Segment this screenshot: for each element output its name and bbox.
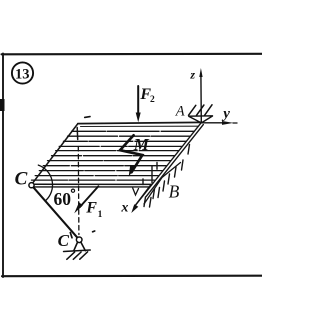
frame left border xyxy=(2,54,4,278)
dashed vertical line xyxy=(77,147,80,235)
frame bottom border xyxy=(2,275,262,278)
vertical mark near top-left corner xyxy=(76,128,79,140)
plate bottom edge lower line xyxy=(34,186,150,188)
plate right edge double line xyxy=(135,122,203,205)
support B v-mark xyxy=(133,188,139,195)
svg-text:13: 13 xyxy=(15,67,30,83)
svg-text:C: C xyxy=(58,231,70,250)
support C' ground line xyxy=(64,250,91,252)
force F2 arrow xyxy=(137,86,139,114)
svg-text:F: F xyxy=(85,200,97,217)
support A hatching xyxy=(189,105,213,116)
svg-text:M: M xyxy=(133,135,150,154)
support C' hatching xyxy=(67,252,88,259)
strut C to C' xyxy=(34,188,77,237)
support B hatching band xyxy=(144,145,190,208)
support B wall line xyxy=(144,163,181,205)
support C' pin circle xyxy=(76,237,82,243)
svg-text:y: y xyxy=(221,106,230,122)
svg-text:B: B xyxy=(169,182,180,202)
plate hatching lines xyxy=(32,131,195,180)
frame left border blob xyxy=(0,99,5,111)
svg-text:x: x xyxy=(120,201,128,216)
plate left edge xyxy=(33,124,78,183)
support C' triangle xyxy=(74,242,86,251)
svg-text:C: C xyxy=(15,169,28,190)
node C circle xyxy=(29,183,34,188)
force F1 arrow xyxy=(80,186,99,207)
svg-text:2: 2 xyxy=(150,95,155,105)
axis z xyxy=(200,74,202,122)
svg-text:A: A xyxy=(175,104,185,120)
support B inner ticks xyxy=(143,163,157,185)
moment M zigzag arrow xyxy=(120,135,142,172)
problem number circle xyxy=(12,62,33,83)
svg-text:z: z xyxy=(189,67,195,81)
angle arc at C xyxy=(38,165,52,200)
speck right of C' xyxy=(93,230,95,233)
svg-text:1: 1 xyxy=(98,210,103,220)
plate top second line xyxy=(81,125,199,127)
plate bottom edge upper line xyxy=(33,183,151,185)
svg-text:60: 60 xyxy=(54,189,72,209)
support A triangle xyxy=(189,116,213,123)
axis y xyxy=(201,122,237,124)
speck above plate xyxy=(85,116,90,119)
plate top edge xyxy=(78,122,202,123)
axis x xyxy=(134,185,151,207)
frame top border xyxy=(2,53,263,56)
